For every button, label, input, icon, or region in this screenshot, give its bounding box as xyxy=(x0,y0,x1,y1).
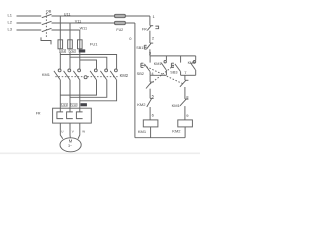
motor M xyxy=(60,138,81,152)
contact KM2 aux NO xyxy=(195,56,197,61)
svg-text:3~: 3~ xyxy=(68,144,72,148)
control left rail wire 0 xyxy=(134,23,136,138)
button SB2 NO xyxy=(149,56,151,63)
svg-text:KM1: KM1 xyxy=(138,129,147,134)
svg-text:FR: FR xyxy=(142,27,147,31)
contactor KM2 pole 3 xyxy=(115,69,118,72)
label U13 xyxy=(61,103,67,107)
contactor KM1 pole 3 xyxy=(78,69,81,72)
contactor KM1 pole 2 xyxy=(68,69,71,72)
label U12 xyxy=(59,49,65,53)
svg-text:FU2: FU2 xyxy=(116,28,123,32)
svg-text:KM1: KM1 xyxy=(172,103,181,108)
svg-text:L3: L3 xyxy=(8,27,13,32)
label W13 xyxy=(81,103,88,107)
breaker QB handle xyxy=(41,37,51,44)
svg-text:U13: U13 xyxy=(62,103,68,107)
wire U12 crossover to KM2 pole3 xyxy=(60,55,116,70)
svg-text:L2: L2 xyxy=(8,20,13,25)
svg-text:KM1: KM1 xyxy=(154,62,162,66)
control right rail xyxy=(149,16,151,26)
svg-text:SB2: SB2 xyxy=(137,71,144,76)
svg-text:M: M xyxy=(69,139,73,144)
node 3 rail xyxy=(150,55,196,57)
svg-text:KM2: KM2 xyxy=(137,102,146,107)
svg-text:U: U xyxy=(61,130,63,134)
node 7 bar xyxy=(181,74,196,76)
breaker QB pole 1 xyxy=(42,14,52,17)
bottom rail xyxy=(135,137,185,139)
wire W11 drop xyxy=(79,30,81,69)
svg-text:V13: V13 xyxy=(71,103,77,107)
svg-text:U11: U11 xyxy=(64,12,71,16)
svg-text:V: V xyxy=(72,130,74,134)
button SB2 NC linked xyxy=(185,79,189,81)
fuse FU2 b xyxy=(115,21,126,24)
svg-text:V12: V12 xyxy=(70,49,76,53)
wire to motor W xyxy=(78,123,80,139)
svg-text:KM2: KM2 xyxy=(172,129,181,134)
wire V12 crossover to KM2 pole2 xyxy=(70,57,107,69)
contactor KM1 pole 1 xyxy=(58,69,61,72)
coil KM1 xyxy=(143,120,158,127)
label W12 xyxy=(79,49,86,53)
wire W11 xyxy=(52,29,80,31)
label V12 xyxy=(69,49,75,53)
wire to motor U xyxy=(60,123,63,139)
button SB3 NC linked xyxy=(150,81,154,83)
svg-text:W13: W13 xyxy=(81,103,88,107)
fuse FU1 b xyxy=(68,40,73,49)
contact KM1 NC interlock xyxy=(185,98,189,100)
contact KM2 NC interlock xyxy=(150,97,154,99)
wire U11 xyxy=(52,15,150,17)
svg-text:W: W xyxy=(82,130,85,134)
button SB1 NC xyxy=(150,42,153,44)
wire V11 xyxy=(52,22,135,24)
svg-text:FR: FR xyxy=(36,111,41,115)
breaker QB pole 2 xyxy=(42,21,52,24)
wire L2 xyxy=(17,22,42,24)
button SB3 NO xyxy=(180,56,182,63)
wire U11 drop xyxy=(59,16,61,69)
FR heater 1 xyxy=(57,112,63,119)
svg-text:W11: W11 xyxy=(80,26,88,30)
label V13 xyxy=(71,103,77,107)
svg-text:U12: U12 xyxy=(60,49,66,53)
svg-text:KM2: KM2 xyxy=(120,73,129,78)
breaker QB linkage xyxy=(45,13,47,37)
KM1 KM2 linkage dashed xyxy=(55,76,84,78)
coil KM2 xyxy=(178,120,193,127)
wire KM1 outputs xyxy=(59,80,61,112)
SB3 link dashed xyxy=(149,65,174,85)
FR NC contact xyxy=(150,25,153,27)
contact KM1 aux NO xyxy=(165,56,167,61)
svg-text:L1: L1 xyxy=(8,13,13,18)
wire L1 xyxy=(17,15,42,17)
svg-text:KM1: KM1 xyxy=(42,72,50,77)
svg-text:W12: W12 xyxy=(79,49,86,53)
wire to motor V xyxy=(69,123,71,138)
svg-text:FU1: FU1 xyxy=(90,42,98,47)
svg-text:SB3: SB3 xyxy=(170,70,177,74)
fuse FU1 c xyxy=(78,40,83,49)
wire W12 crossover to KM2 pole1 xyxy=(80,60,97,69)
svg-text:KM2: KM2 xyxy=(188,61,196,65)
wire V11 drop xyxy=(69,23,71,69)
FR heater 3 xyxy=(76,112,82,119)
FR heater 2 xyxy=(67,112,73,119)
SB2 link dashed xyxy=(144,65,184,84)
svg-text:V11: V11 xyxy=(75,19,81,23)
svg-text:QB: QB xyxy=(46,9,52,13)
wire KM2 output bridges xyxy=(60,80,96,96)
contactor KM2 pole 2 xyxy=(105,69,108,72)
fuse FU1 a xyxy=(58,40,63,49)
contactor KM2 pole 1 xyxy=(94,69,97,72)
node 4 bar xyxy=(150,74,166,76)
svg-text:SB1: SB1 xyxy=(136,46,143,50)
page bottom border xyxy=(0,152,200,154)
wire L3 xyxy=(17,29,42,31)
fuse FU2 a xyxy=(115,14,126,17)
thermal relay FR box xyxy=(53,108,92,123)
breaker QB pole 3 xyxy=(42,28,52,31)
